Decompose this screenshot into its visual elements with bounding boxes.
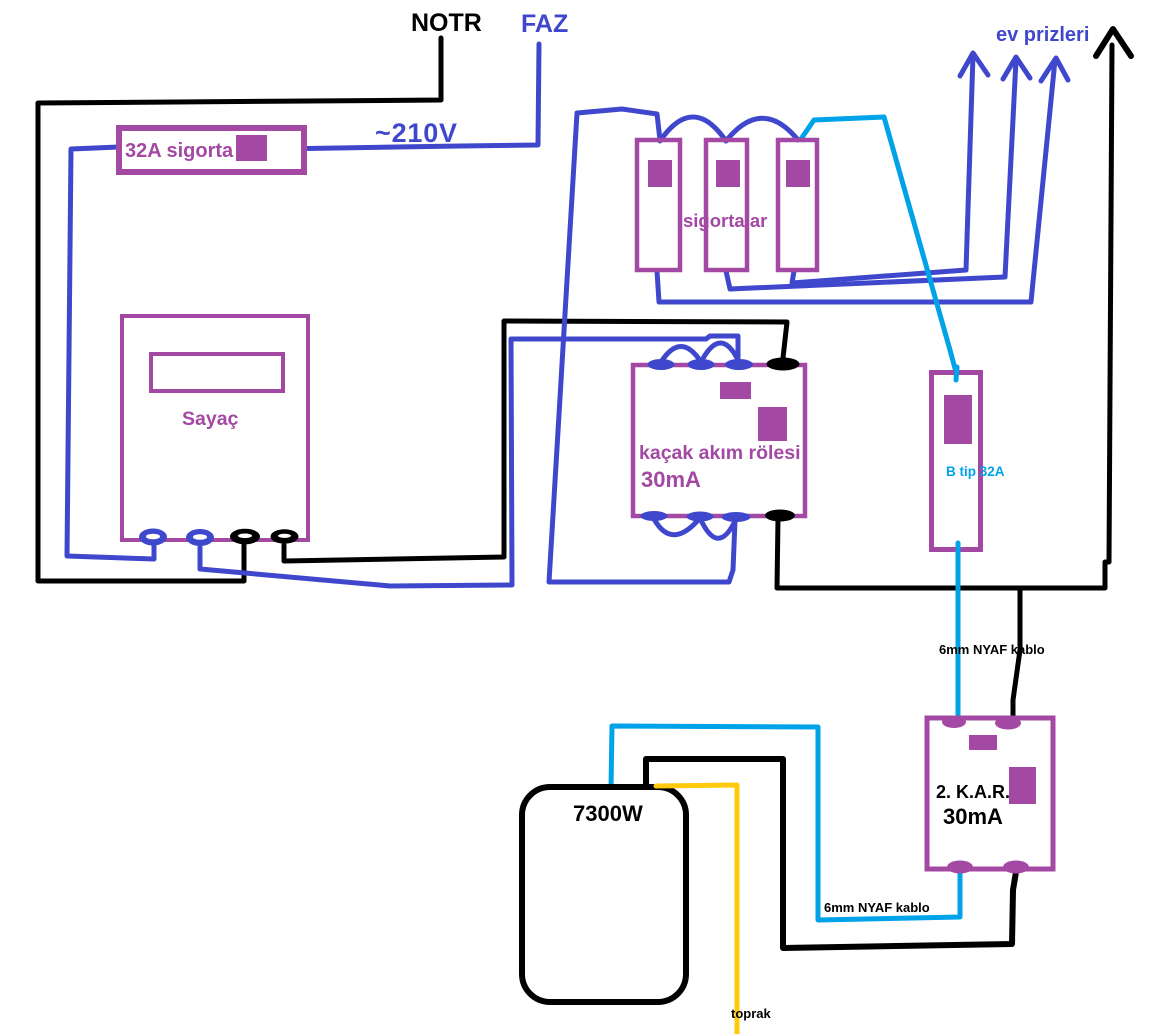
wire: Sayac terminal 4 up over to kacak akim rolesi top black terminal <box>284 321 787 561</box>
kacak top terminal 1 <box>648 359 675 370</box>
2 KAR top terminal 1 <box>942 716 966 728</box>
wire: cyan stub through B tip bottom border <box>956 543 961 553</box>
svg-text:B tip 32A: B tip 32A <box>946 464 1005 479</box>
B tip switch block <box>944 395 972 444</box>
wire: sigorta 2 bottom to middle blue arrow <box>726 60 1016 289</box>
svg-text:~210V: ~210V <box>375 118 458 148</box>
kacak akim rolesi small block <box>720 382 751 399</box>
arrowhead blue arrow 2 <box>1003 57 1030 79</box>
2 KAR small block <box>969 735 997 750</box>
svg-text:toprak: toprak <box>731 1006 772 1021</box>
wire: Sayac terminal 2 down right and up to kacak akim rolesi top terminal 3 <box>200 336 738 586</box>
2 KAR bottom terminal 1 <box>947 861 973 874</box>
svg-text:30mA: 30mA <box>943 804 1003 829</box>
wire: 32A sigorta left side down to Sayac terminal 1 <box>67 147 154 559</box>
component 2. K.A.R. box <box>927 718 1053 869</box>
wire: FAZ blue down to 32A sigorta right side <box>307 44 539 149</box>
kacak bottom terminal 3 <box>722 512 751 522</box>
svg-text:7300W: 7300W <box>573 801 643 826</box>
wire: cyan from B tip 32A bottom to 2. K.A.R. top terminal 1 <box>956 548 961 722</box>
wire: kacak akim rolesi bottom terminal 3 down, left, long rise to sigortalar chain <box>549 109 735 582</box>
wire: yellow toprak earth wire from 7300W to bottom <box>656 785 737 1034</box>
wire: 2. K.A.R. bottom terminal down, around to 7300W top <box>646 759 1016 948</box>
kacak akim rolesi switch block <box>758 407 787 441</box>
arrowhead of big black arrow <box>1096 29 1131 56</box>
svg-text:Sayaç: Sayaç <box>182 408 239 430</box>
kacak bottom terminal 1 <box>641 511 668 521</box>
kacak top terminal 4 black <box>767 358 800 371</box>
wire: kacak akim rolesi bottom black terminal to right rail and big black arrow <box>777 45 1112 588</box>
2 KAR top terminal 2 <box>995 717 1021 730</box>
svg-text:sigortalar: sigortalar <box>683 210 767 231</box>
component sigorta fuse 3 <box>778 140 817 270</box>
wire: cyan stub through B tip top border <box>956 367 957 380</box>
component sigorta fuse 2 <box>706 140 747 270</box>
wire: junction on black rail down to 2. K.A.R. top terminal <box>1013 588 1020 724</box>
Sayac terminal 3 <box>230 529 260 545</box>
svg-text:ev prizleri: ev prizleri <box>996 24 1089 46</box>
arrowhead blue arrow 1 <box>960 53 988 76</box>
Sayac terminal 2 <box>186 529 214 546</box>
kacak bottom terminal 2 <box>687 512 714 522</box>
wire: NOTR black neutral feed down left side to Sayac terminal 3 <box>38 38 441 581</box>
arrowhead blue arrow 3 <box>1041 58 1068 81</box>
svg-text:FAZ: FAZ <box>521 10 568 38</box>
kacak top arc 2-3 <box>701 343 739 362</box>
component B tip 32A breaker box <box>932 373 981 550</box>
svg-text:6mm NYAF kablo: 6mm NYAF kablo <box>824 900 930 915</box>
2 KAR bottom terminal 2 <box>1003 861 1029 874</box>
kacak top terminal 2 <box>688 359 715 370</box>
32A sigorta switch block <box>236 135 267 161</box>
component Sayac meter box <box>122 316 308 540</box>
svg-text:2. K.A.R.: 2. K.A.R. <box>936 782 1010 802</box>
component sigorta fuse 1 <box>637 140 680 270</box>
wire: sigorta 3 bottom to leftmost blue arrow <box>792 55 973 283</box>
svg-text:NOTR: NOTR <box>411 9 482 37</box>
component 7300W load box <box>522 787 686 1002</box>
wire: arc between sigorta 1 and 2 tops <box>660 117 726 141</box>
Sayac terminal 1 <box>139 529 167 546</box>
kacak top arc 1-2 <box>661 347 701 363</box>
wire: cyan from sigorta 3 top to B tip 32A breaker <box>801 117 957 376</box>
Sayac terminal 4 <box>271 529 299 543</box>
component 32A sigorta box <box>119 128 304 172</box>
svg-text:30mA: 30mA <box>641 467 701 492</box>
svg-text:kaçak akım rölesi: kaçak akım rölesi <box>639 442 801 464</box>
svg-text:6mm NYAF kablo: 6mm NYAF kablo <box>939 642 1045 657</box>
component kacak akim rolesi box <box>633 365 805 516</box>
kacak top terminal 3 <box>725 359 753 370</box>
Sayac display window <box>151 354 283 391</box>
wire: sigorta 1 bottom to rightmost blue arrow (ev prizleri) <box>657 60 1055 302</box>
wire: cyan from 2. K.A.R. bottom terminal 1 around to 7300W top <box>611 726 960 920</box>
kacak bottom arc 2-3 <box>700 518 736 538</box>
svg-text:32A sigorta: 32A sigorta <box>125 140 234 162</box>
wire: arc between sigorta 2 and 3 tops <box>726 118 798 141</box>
kacak bottom terminal 4 black <box>765 510 795 522</box>
kacak bottom arc 1-2 <box>654 518 700 535</box>
2 KAR switch block <box>1009 767 1036 804</box>
